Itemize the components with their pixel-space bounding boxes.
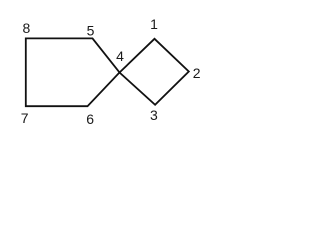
svg-text:7: 7 [21, 110, 29, 126]
svg-text:1: 1 [150, 16, 158, 32]
square 4-1-2-3 [120, 39, 189, 105]
svg-text:5: 5 [87, 23, 95, 39]
pentagon 8-5-4-6-7 [26, 38, 120, 106]
svg-text:6: 6 [86, 111, 94, 127]
svg-text:8: 8 [23, 20, 31, 36]
svg-text:3: 3 [150, 107, 158, 123]
svg-text:4: 4 [116, 48, 124, 64]
svg-text:2: 2 [193, 65, 201, 81]
